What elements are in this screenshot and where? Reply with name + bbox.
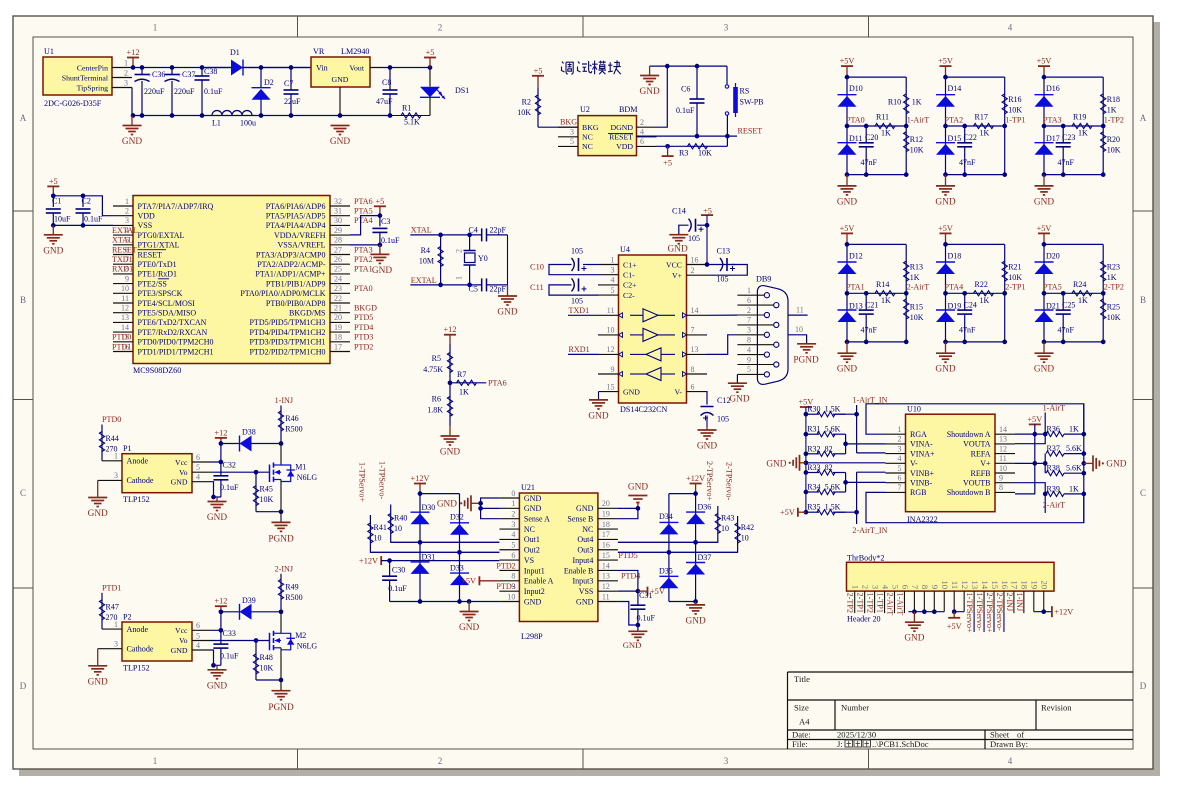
svg-text:REFB: REFB (970, 469, 990, 478)
svg-text:C3: C3 (381, 217, 390, 226)
svg-text:R5: R5 (432, 354, 441, 363)
svg-text:TLP152: TLP152 (123, 663, 150, 672)
svg-text:5: 5 (511, 541, 515, 550)
wire pin4 to gnd (212, 650, 221, 665)
svg-text:R18: R18 (1107, 95, 1120, 104)
wire top rail (847, 76, 906, 78)
svg-text:BKGD: BKGD (354, 304, 377, 313)
ground GND sideways INA right (1084, 462, 1093, 464)
svg-text:V+: V+ (980, 459, 991, 468)
svg-text:GND: GND (440, 448, 460, 458)
svg-text:C7: C7 (284, 79, 293, 88)
svg-text:+5: +5 (426, 48, 435, 57)
svg-text:8: 8 (691, 365, 695, 374)
svg-text:C8: C8 (382, 78, 391, 87)
svg-text:14: 14 (121, 323, 129, 332)
svg-text:105: 105 (717, 415, 729, 424)
svg-text:3: 3 (724, 23, 729, 33)
svg-text:+5: +5 (703, 207, 712, 216)
pin 18 PTD3/PID3/TPM1CH1 (330, 341, 350, 343)
svg-text:82: 82 (825, 444, 833, 453)
wire top rail (946, 243, 1005, 245)
svg-text:220uF: 220uF (144, 87, 165, 96)
svg-text:P2: P2 (123, 612, 132, 621)
svg-text:L298P: L298P (521, 632, 543, 641)
right loop vertical (1083, 404, 1085, 523)
svg-text:R38: R38 (1047, 464, 1060, 473)
svg-text:0: 0 (511, 489, 515, 498)
svg-text:PTA5: PTA5 (1043, 283, 1062, 292)
svg-text:3: 3 (570, 128, 574, 137)
svg-text:+5V: +5V (938, 224, 953, 233)
wire VSS row (618, 590, 638, 592)
pin 10 GND (499, 601, 519, 603)
svg-text:5: 5 (890, 585, 900, 590)
svg-text:R31: R31 (807, 425, 820, 434)
power port +5V PTA4 (940, 232, 952, 234)
svg-text:+5: +5 (375, 197, 384, 206)
svg-text:TLP152: TLP152 (123, 495, 150, 504)
diode D39 (221, 611, 240, 613)
svg-text:GND: GND (588, 411, 608, 421)
svg-text:GND: GND (524, 597, 542, 606)
svg-text:1.8K: 1.8K (427, 406, 443, 415)
svg-text:+5V: +5V (1027, 415, 1042, 424)
diode D11 (846, 126, 848, 175)
wire top +12 rail left (420, 493, 460, 495)
svg-text:13: 13 (970, 580, 980, 589)
power port +12V L298 right (690, 483, 702, 485)
svg-text:D11: D11 (849, 134, 862, 143)
svg-text:2-TPServo+: 2-TPServo+ (985, 593, 994, 633)
svg-text:VSS: VSS (579, 587, 594, 596)
wire U4 pin7 stub (706, 334, 709, 336)
svg-text:C32: C32 (223, 461, 236, 470)
svg-text:5: 5 (570, 137, 574, 146)
svg-text:C37: C37 (182, 70, 195, 79)
svg-text:10K: 10K (1107, 146, 1121, 155)
svg-text:R33: R33 (807, 463, 820, 472)
svg-text:R3: R3 (679, 149, 688, 158)
pin 23 PTA0/PIA0/ADP0/MCLK (330, 292, 350, 294)
ground GND PTA5 (1043, 342, 1045, 353)
wire xtal row (410, 234, 481, 236)
svg-text:R45: R45 (260, 485, 273, 494)
svg-text:47nF: 47nF (1058, 325, 1075, 334)
header gnd rail pins 7-10 (913, 591, 915, 612)
svg-text:+5: +5 (663, 159, 672, 168)
pin 13 PTE6/TxD2/TXCAN (113, 321, 133, 323)
svg-text:PTD4: PTD4 (354, 323, 373, 332)
pin 1 Anode (102, 628, 122, 630)
wire bottom right rail (669, 601, 696, 603)
wire BKGD to U2 (538, 126, 578, 128)
svg-text:12: 12 (607, 345, 615, 354)
pin 12 PTE5/SDA/MISO (113, 312, 133, 314)
resistor R1 5.1K (390, 115, 430, 117)
pin 31 PTA5/PIA5/ADP5 (330, 215, 350, 217)
svg-text:11: 11 (796, 305, 804, 314)
wire pin11 gnd (618, 602, 638, 626)
pin 4 V- (886, 462, 906, 464)
svg-text:C20: C20 (865, 133, 878, 142)
resistor R15 10K (904, 299, 909, 319)
svg-text:2-TPServo-: 2-TPServo- (725, 462, 734, 500)
svg-text:5.1K: 5.1K (404, 118, 420, 127)
svg-text:Anode: Anode (127, 625, 149, 634)
svg-text:PTD1: PTD1 (112, 342, 131, 351)
power port +12 opto (215, 437, 227, 439)
svg-text:6: 6 (196, 621, 200, 630)
svg-text:GND: GND (623, 640, 642, 650)
svg-text:C4: C4 (469, 226, 478, 235)
ground GND PTA4 (945, 342, 947, 353)
pin 21 BKGD/MS (330, 312, 350, 314)
svg-text:19: 19 (1030, 580, 1040, 589)
svg-text:D32: D32 (450, 513, 464, 522)
svg-text:PTG0/EXTAL: PTG0/EXTAL (138, 231, 185, 240)
pin 26 PTA2/ADP2/ACMP- (330, 263, 350, 265)
diode D37 (695, 542, 697, 601)
svg-text:PTA5: PTA5 (354, 207, 373, 216)
resistor R6 1.8K (449, 383, 451, 426)
svg-text:16: 16 (1000, 580, 1010, 589)
svg-text:10K: 10K (698, 149, 712, 158)
svg-text:VS: VS (524, 556, 534, 565)
svg-text:28: 28 (334, 236, 342, 245)
svg-text:PTD2: PTD2 (354, 342, 373, 351)
pin 14 Enable B (598, 569, 618, 571)
svg-text:D38: D38 (242, 428, 256, 437)
svg-text:PTD3: PTD3 (354, 333, 373, 342)
svg-text:3: 3 (125, 216, 129, 225)
wire mid row (1044, 292, 1103, 294)
svg-text:5.6K: 5.6K (825, 483, 841, 492)
svg-text:0.1uF: 0.1uF (204, 87, 223, 96)
inductor L1 100u (212, 111, 252, 116)
ground GND C3 (379, 245, 381, 255)
component U1 connector 2DC-G026-D35F (43, 57, 112, 95)
svg-text:PTA2/ADP2/ACMP-: PTA2/ADP2/ACMP- (257, 260, 326, 269)
pin 1 Anode (102, 460, 122, 462)
DB9 pin 6 (737, 304, 773, 306)
svg-text:0.1uF: 0.1uF (676, 106, 695, 115)
svg-text:A: A (20, 113, 27, 123)
diode D19 (945, 293, 947, 342)
svg-text:PTA3: PTA3 (1043, 115, 1062, 124)
mosfet M2 N6LG (280, 612, 282, 634)
svg-text:R22: R22 (975, 280, 988, 289)
svg-text:1.5K: 1.5K (825, 405, 841, 414)
svg-text:9: 9 (999, 474, 1003, 483)
svg-text:PTD1/PID1/TPM2CH1: PTD1/PID1/TPM2CH1 (138, 347, 214, 356)
svg-text:GND: GND (1034, 197, 1054, 207)
svg-text:U1: U1 (44, 47, 54, 56)
wire VINA+ row (857, 452, 886, 454)
svg-text:1-TP2: 1-TP2 (866, 593, 875, 613)
svg-text:8: 8 (920, 585, 930, 590)
wire switch top to rail (726, 66, 728, 84)
pin 19 Sense B (598, 518, 618, 520)
svg-text:1K: 1K (1107, 106, 1117, 115)
pin 5 VINB+ (886, 472, 906, 474)
wire mid row (847, 292, 906, 294)
svg-text:21: 21 (334, 304, 342, 313)
svg-text:Out2: Out2 (524, 546, 540, 555)
svg-text:PTB1/PIB1/ADP9: PTB1/PIB1/ADP9 (266, 279, 326, 288)
pin 24 PTB1/PIB1/ADP9 (330, 283, 350, 285)
capacitor C24 47nF (964, 293, 966, 310)
svg-text:R2: R2 (522, 98, 531, 107)
svg-text:10: 10 (374, 534, 382, 543)
svg-text:D37: D37 (698, 553, 712, 562)
wire mid row (946, 125, 1005, 127)
svg-text:31: 31 (334, 207, 342, 216)
svg-text:D39: D39 (242, 596, 256, 605)
wire source down (280, 648, 282, 691)
svg-text:C13: C13 (717, 247, 731, 256)
svg-text:9: 9 (747, 355, 751, 364)
wire Vout rail (390, 67, 430, 69)
mosfet M1 N6LG (280, 444, 282, 466)
resistor R46 R500 (280, 406, 282, 444)
pin 16 PTD1/PID1/TPM2CH1 (113, 351, 133, 353)
diode D15 (945, 126, 947, 175)
resistor R33 82 (806, 472, 819, 474)
power port +5 MCU right C3 (374, 205, 386, 207)
svg-text:9: 9 (611, 365, 615, 374)
svg-text:1-AirT: 1-AirT (907, 115, 930, 124)
svg-text:C36: C36 (152, 70, 165, 79)
svg-text:1-AirT: 1-AirT (1043, 404, 1066, 413)
svg-text:105: 105 (688, 234, 700, 243)
svg-text:C11: C11 (530, 283, 544, 292)
power port +5V PTA0 (841, 65, 853, 67)
svg-text:8: 8 (511, 572, 515, 581)
power port +5V PTA2 (940, 65, 952, 67)
ground GND opto input (97, 649, 99, 666)
svg-text:Input1: Input1 (524, 566, 545, 575)
capacitor C7 22uF (290, 68, 292, 91)
svg-text:26: 26 (334, 255, 342, 264)
svg-text:11: 11 (950, 581, 960, 589)
resistor R34 5.6K (806, 491, 819, 493)
wire DB9 11 (788, 314, 808, 316)
svg-text:1-AirT_IN: 1-AirT_IN (852, 395, 887, 404)
svg-text:11: 11 (607, 306, 615, 315)
svg-text:+5V: +5V (1037, 224, 1052, 233)
svg-text:C2+: C2+ (623, 281, 637, 290)
svg-text:2-AirT: 2-AirT (1043, 501, 1066, 510)
svg-text:1: 1 (611, 255, 615, 264)
svg-text:C38: C38 (204, 67, 217, 76)
svg-text:PTD4/PID4/TPM1CH2: PTD4/PID4/TPM1CH2 (249, 328, 325, 337)
diode D1 (202, 67, 231, 69)
svg-text:1-AirT: 1-AirT (895, 593, 904, 616)
svg-text:4: 4 (196, 641, 200, 650)
pin 5 Vo (192, 471, 212, 473)
svg-text:VSS: VSS (138, 221, 153, 230)
resistor R14 1K (875, 291, 895, 296)
component U4 DS14C232CN (619, 255, 687, 403)
svg-text:10: 10 (607, 326, 615, 335)
svg-text:PTA5/PIA5/ADP5: PTA5/PIA5/ADP5 (266, 212, 326, 221)
svg-text:0.1uF: 0.1uF (381, 236, 400, 245)
wire R30 to 1-AirT_IN (835, 413, 857, 415)
svg-text:105: 105 (571, 247, 583, 256)
svg-text:PTA3/ADP3/ACMP0: PTA3/ADP3/ACMP0 (256, 250, 326, 259)
power port +5 under VDD (662, 155, 674, 157)
pin 7 PTE0/TxD1 (113, 263, 133, 265)
wire DB9 pin5 to gnd (736, 374, 738, 383)
svg-text:A4: A4 (799, 717, 810, 727)
svg-text:GND: GND (628, 483, 648, 493)
svg-text:L1: L1 (212, 119, 221, 128)
svg-text:C1+: C1+ (623, 260, 637, 269)
title block (788, 671, 1134, 673)
svg-text:+12: +12 (127, 48, 140, 57)
svg-text:6: 6 (640, 137, 644, 146)
svg-text:20: 20 (334, 313, 342, 322)
svg-text:4: 4 (196, 473, 200, 482)
svg-text:5: 5 (898, 464, 902, 473)
svg-text:LM2940: LM2940 (341, 47, 369, 56)
wire mid row (1044, 125, 1103, 127)
+5V bus right (1015, 424, 1035, 494)
svg-text:R40: R40 (394, 514, 407, 523)
svg-text:1K: 1K (910, 273, 920, 282)
svg-text:6: 6 (196, 453, 200, 462)
svg-text:GND: GND (576, 504, 594, 513)
svg-text:6: 6 (900, 585, 910, 590)
svg-text:9: 9 (930, 585, 940, 590)
resistor R11 1K (875, 123, 895, 128)
svg-text:M2: M2 (295, 631, 306, 640)
svg-text:+12: +12 (214, 597, 227, 606)
ground GND L298 bottom left (468, 602, 470, 612)
svg-text:PTA1/ADP1/ACMP+: PTA1/ADP1/ACMP+ (255, 270, 326, 279)
svg-text:U2: U2 (580, 105, 590, 114)
svg-text:C: C (20, 488, 26, 498)
svg-text:PTA6: PTA6 (488, 379, 507, 388)
svg-text:16: 16 (602, 541, 610, 550)
pin 6 VS (499, 559, 519, 561)
svg-text:1: 1 (124, 58, 128, 67)
svg-text:PGND: PGND (268, 703, 294, 713)
resistor R19 1K (1072, 123, 1092, 128)
pin 18 NC (598, 528, 618, 530)
svg-text:1: 1 (153, 23, 158, 33)
svg-text:10: 10 (507, 592, 515, 601)
svg-text:C14: C14 (672, 207, 687, 216)
regulator VR LM2940 (311, 57, 370, 87)
svg-text:12: 12 (999, 444, 1007, 453)
pin 14 Shoutdown A (995, 433, 1015, 435)
svg-text:D13: D13 (849, 301, 863, 310)
svg-text:R25: R25 (1107, 302, 1120, 311)
wire pin29 to +5 (350, 216, 380, 235)
pin 10 REFB (995, 472, 1015, 474)
header pin wires 13-16 TPServo (973, 591, 975, 612)
svg-text:D35: D35 (659, 567, 673, 576)
svg-text:Vo: Vo (179, 468, 188, 477)
svg-text:10: 10 (121, 284, 129, 293)
svg-text:+12V: +12V (411, 474, 430, 483)
svg-text:GND: GND (207, 681, 227, 691)
svg-text:VINA-: VINA- (910, 440, 933, 449)
DB9 pin 2 (737, 314, 764, 316)
resistor R49 R500 (280, 574, 282, 612)
svg-text:GND: GND (88, 509, 108, 519)
svg-text:13: 13 (602, 572, 610, 581)
capacitor C22 47nF (964, 126, 966, 143)
right column lower (1102, 126, 1104, 175)
svg-text:R12: R12 (910, 135, 923, 144)
svg-text:6: 6 (511, 551, 515, 560)
svg-text:2-INJ: 2-INJ (1005, 593, 1014, 612)
wire VDD row to +5 (657, 145, 728, 147)
svg-text:D1: D1 (230, 48, 240, 57)
component U8 MC9S08DZ60 (133, 196, 330, 364)
svg-text:DS1: DS1 (455, 86, 469, 95)
svg-text:NC: NC (582, 142, 593, 151)
svg-text:PTE1/RxD1: PTE1/RxD1 (138, 270, 178, 279)
power port +5V at VSS (647, 587, 649, 596)
svg-text:47nF: 47nF (861, 158, 878, 167)
svg-text:D20: D20 (1046, 251, 1060, 260)
svg-text:R11: R11 (876, 113, 889, 122)
svg-text:NC: NC (582, 133, 593, 142)
svg-text:14: 14 (980, 580, 990, 589)
svg-text:3: 3 (898, 444, 902, 453)
svg-text:18: 18 (1020, 580, 1030, 589)
resistor R30 1.5K (806, 413, 819, 415)
svg-text:GND: GND (459, 623, 479, 633)
resistor R40 10 (391, 505, 500, 543)
svg-text:C23: C23 (1062, 133, 1075, 142)
svg-text:10: 10 (795, 325, 803, 334)
svg-text:C33: C33 (223, 629, 236, 638)
svg-text:Vin: Vin (316, 64, 328, 73)
wire RESET row (637, 135, 738, 137)
svg-text:2-TP1: 2-TP1 (856, 593, 865, 613)
svg-text:10uF: 10uF (54, 215, 71, 224)
svg-text:RXD1: RXD1 (112, 265, 133, 274)
svg-text:+12: +12 (214, 428, 227, 437)
pin 32 PTA6/PIA6/ADP6 (330, 205, 350, 207)
pin 15 PTD0/PID0/TPM2CH0 (113, 341, 133, 343)
pin 15 GND (599, 391, 619, 393)
diode D20 (1043, 244, 1045, 293)
svg-text:19: 19 (602, 510, 610, 519)
pin 4 GND (192, 481, 212, 483)
svg-text:RESET: RESET (112, 245, 137, 254)
svg-text:Input4: Input4 (573, 556, 594, 565)
right column lower (905, 293, 907, 342)
svg-text:1: 1 (511, 499, 515, 508)
svg-text:PTB0/PIB0/ADP8: PTB0/PIB0/ADP8 (266, 299, 326, 308)
pin 4 PTG0/EXTAL (113, 234, 133, 236)
svg-text:10: 10 (940, 580, 950, 589)
DB9 pin 4 (737, 354, 764, 356)
svg-text:B: B (20, 295, 26, 305)
svg-text:2: 2 (747, 306, 751, 315)
wire bottom rail (946, 341, 1005, 343)
pin 1 GND (499, 507, 519, 509)
wire VCC row (707, 264, 736, 266)
capacitor C11 105 (597, 284, 600, 286)
pin 4 C2+ (599, 284, 619, 286)
